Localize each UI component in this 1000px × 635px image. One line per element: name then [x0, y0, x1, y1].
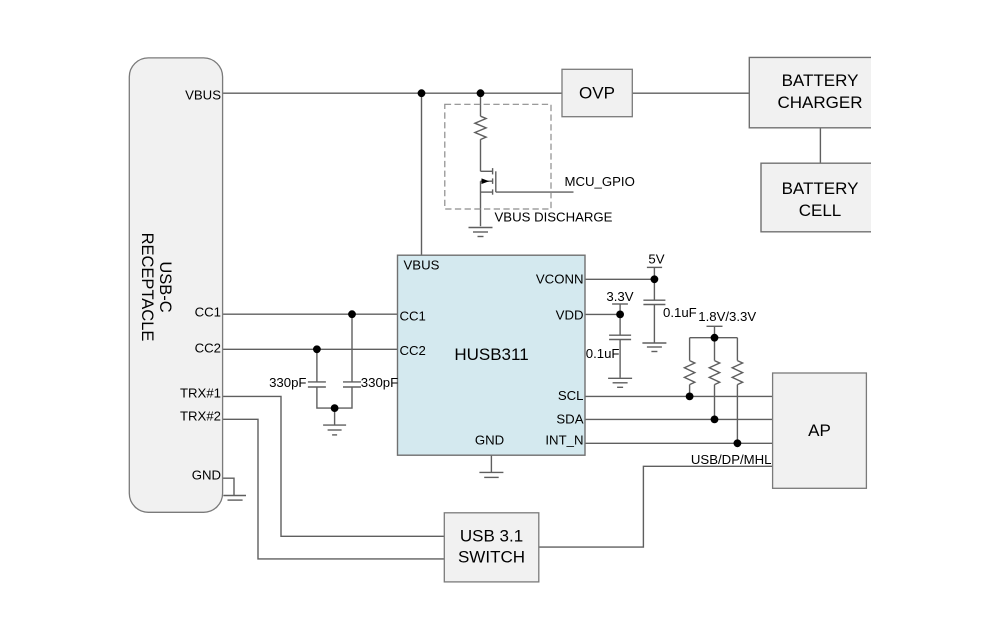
svg-text:CC2: CC2	[195, 340, 221, 355]
svg-text:USB 3.1: USB 3.1	[460, 527, 523, 546]
svg-text:BATTERY: BATTERY	[782, 179, 859, 198]
svg-text:0.1uF: 0.1uF	[586, 346, 620, 361]
svg-text:VCONN: VCONN	[536, 271, 584, 286]
svg-text:0.1uF: 0.1uF	[663, 305, 697, 320]
svg-text:INT_N: INT_N	[545, 432, 583, 447]
svg-text:CC1: CC1	[400, 309, 426, 324]
svg-text:SWITCH: SWITCH	[458, 547, 525, 566]
svg-text:1.8V/3.3V: 1.8V/3.3V	[698, 309, 756, 324]
svg-text:CC2: CC2	[400, 343, 426, 358]
svg-text:VBUS: VBUS	[185, 88, 221, 103]
svg-text:330pF: 330pF	[269, 375, 306, 390]
svg-text:CELL: CELL	[799, 201, 842, 220]
svg-text:USB/DP/MHL: USB/DP/MHL	[691, 452, 772, 467]
svg-text:SDA: SDA	[556, 411, 583, 426]
svg-text:VBUS DISCHARGE: VBUS DISCHARGE	[495, 210, 613, 225]
svg-text:3.3V: 3.3V	[606, 289, 633, 304]
svg-text:TRX#1: TRX#1	[180, 386, 221, 401]
svg-text:GND: GND	[475, 432, 504, 447]
svg-text:CHARGER: CHARGER	[777, 93, 862, 112]
svg-text:CC1: CC1	[195, 305, 221, 320]
svg-text:SCL: SCL	[558, 388, 584, 403]
svg-text:AP: AP	[808, 421, 831, 440]
svg-text:MCU_GPIO: MCU_GPIO	[565, 174, 635, 189]
svg-text:BATTERY: BATTERY	[782, 71, 859, 90]
svg-text:330pF: 330pF	[361, 375, 398, 390]
svg-text:HUSB311: HUSB311	[454, 345, 528, 364]
svg-text:GND: GND	[192, 468, 221, 483]
svg-text:VDD: VDD	[556, 308, 584, 323]
svg-text:5V: 5V	[648, 251, 664, 266]
svg-text:TRX#2: TRX#2	[180, 409, 221, 424]
svg-text:OVP: OVP	[579, 83, 615, 102]
svg-text:VBUS: VBUS	[404, 258, 440, 273]
